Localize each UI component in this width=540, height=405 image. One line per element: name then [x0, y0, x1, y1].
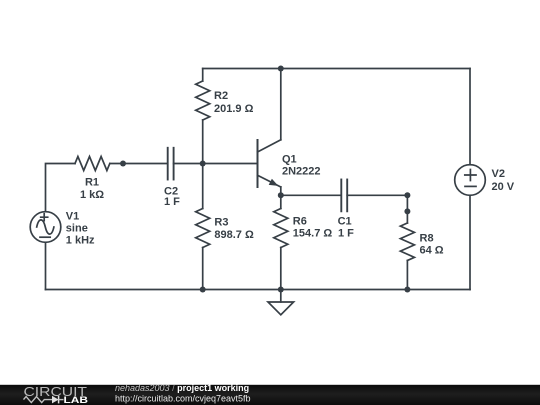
capacitor C1 [338, 180, 355, 240]
svg-text:1 kHz: 1 kHz [66, 235, 95, 247]
node C1 corner junction [404, 192, 410, 198]
svg-text:LAB: LAB [64, 395, 89, 405]
node collector-rail junction [278, 66, 284, 72]
wire R1 to C2 [110, 163, 167, 165]
resistor R2 [196, 69, 254, 164]
node emitter junction [278, 192, 284, 198]
resistor R1 [75, 157, 110, 202]
svg-text:R8: R8 [420, 233, 434, 245]
voltage source V1 [30, 211, 95, 290]
capacitor C2 [164, 148, 180, 208]
svg-text:64 Ω: 64 Ω [420, 245, 444, 257]
wire C1 to R8 corner [347, 195, 407, 211]
svg-text:V2: V2 [492, 168, 505, 180]
wire Q1 collector to top rail [280, 69, 282, 140]
footer project title [115, 383, 249, 393]
ground [268, 290, 294, 315]
resistor R8 [400, 211, 443, 289]
svg-text:R3: R3 [214, 217, 228, 229]
footer url [115, 393, 251, 403]
resistor R3 [196, 164, 254, 290]
svg-text:1 F: 1 F [338, 228, 354, 240]
node R6-bottom junction [278, 287, 284, 293]
node R3-bottom junction [200, 287, 206, 293]
footer bar [0, 385, 540, 405]
node R8 top junction [404, 208, 410, 214]
svg-text:R2: R2 [214, 90, 228, 102]
wire bottom rail [46, 289, 471, 291]
wire V1 to R1 [46, 164, 76, 212]
svg-text:Q1: Q1 [282, 154, 297, 166]
svg-text:R1: R1 [85, 177, 99, 189]
wire top rail [203, 68, 470, 70]
svg-text:nehadas2003 / project1 working: nehadas2003 / project1 working [115, 383, 249, 393]
svg-text:C1: C1 [338, 216, 352, 228]
wire base junction to Q1 base [203, 163, 258, 165]
svg-text:898.7 Ω: 898.7 Ω [214, 229, 254, 241]
svg-text:201.9 Ω: 201.9 Ω [214, 103, 254, 115]
wire C2 to base junction [174, 163, 203, 165]
node R1-C2 junction [120, 161, 126, 167]
svg-text:154.7 Ω: 154.7 Ω [293, 228, 333, 240]
resistor R6 [274, 195, 333, 289]
CircuitLab logo [24, 384, 89, 405]
node base junction [200, 161, 206, 167]
node R8-bottom junction [404, 287, 410, 293]
svg-text:sine: sine [66, 223, 88, 235]
svg-text:20 V: 20 V [492, 181, 515, 193]
svg-text:http://circuitlab.com/cvjeq7ea: http://circuitlab.com/cvjeq7eavt5fb [115, 393, 251, 403]
transistor Q1 [258, 140, 321, 196]
wire emitter junction to C1 [281, 194, 341, 196]
svg-text:1 kΩ: 1 kΩ [80, 189, 104, 201]
voltage source V2 [455, 69, 515, 290]
svg-text:V1: V1 [66, 211, 79, 223]
svg-text:R6: R6 [293, 216, 307, 228]
svg-text:1 F: 1 F [164, 196, 180, 208]
svg-text:2N2222: 2N2222 [282, 166, 321, 178]
